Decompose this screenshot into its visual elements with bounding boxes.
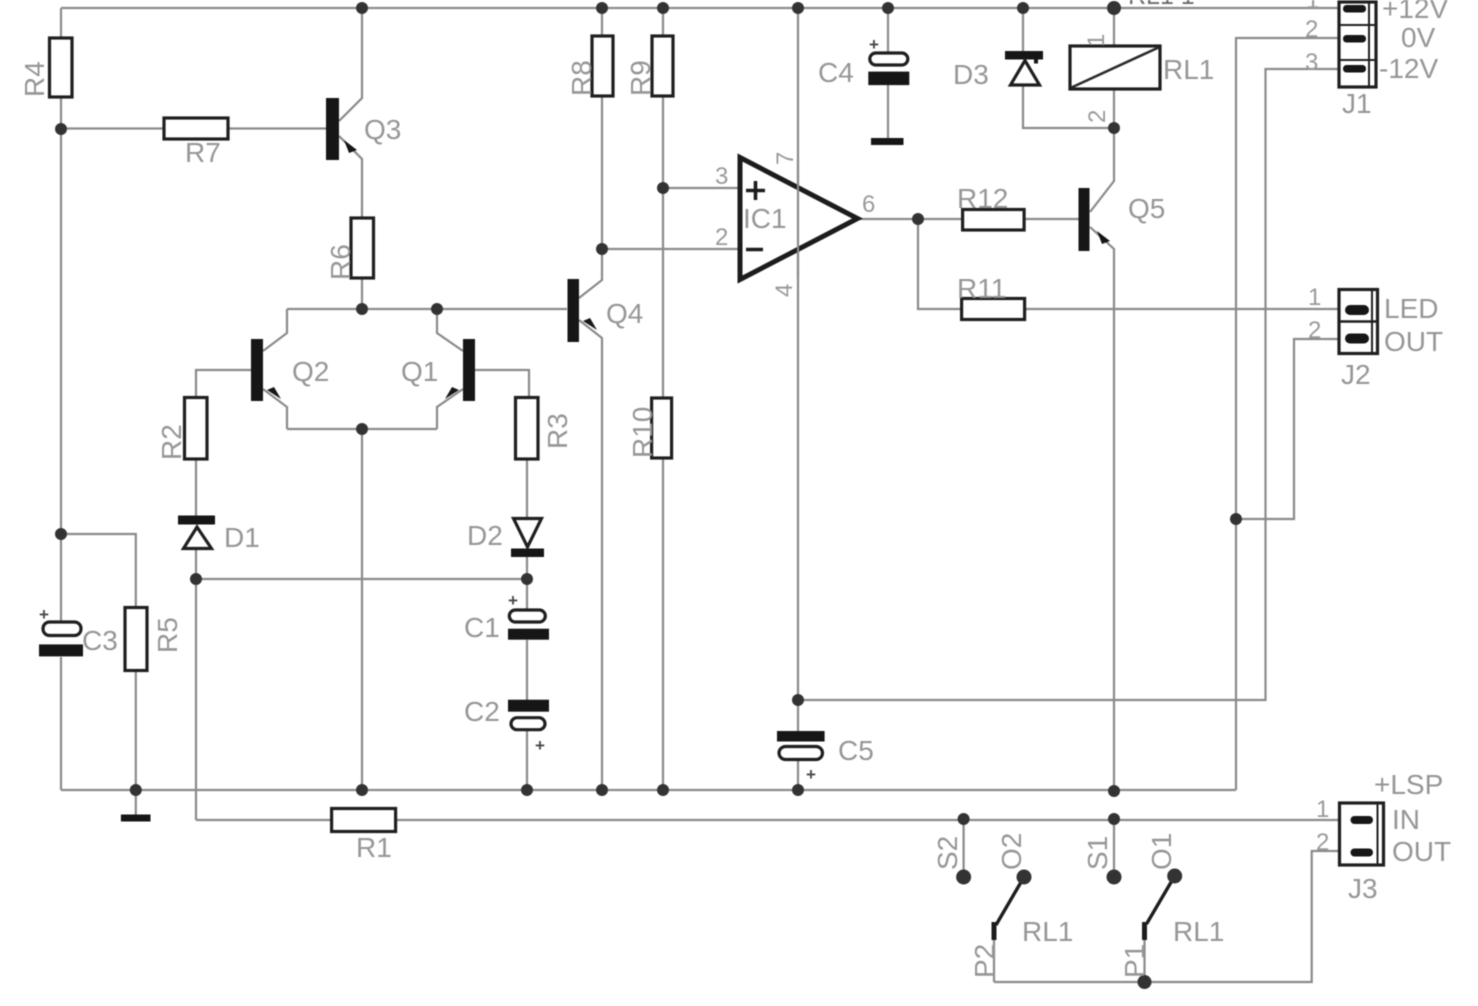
- wire: relay node to Q5 collector: [1090, 128, 1114, 212]
- diode D2: [511, 519, 544, 558]
- svg-text:J2: J2: [1341, 359, 1371, 390]
- junction emitter rail tail: [356, 423, 368, 435]
- capacitor C5: [777, 731, 825, 784]
- wire: R1 to J3 pin1 speaker line: [396, 819, 1352, 821]
- wire: Q4 collector riser: [579, 249, 602, 298]
- svg-text:R12: R12: [957, 183, 1008, 214]
- resistor R3: [516, 398, 539, 460]
- wire: R6 to base rail: [361, 278, 363, 309]
- wire: D3 top lead: [1022, 8, 1024, 51]
- svg-text:R8: R8: [566, 60, 597, 96]
- svg-text:R11: R11: [957, 273, 1006, 304]
- junction base rail at Q1 emitter: [431, 303, 443, 315]
- capacitor C2: [508, 700, 549, 755]
- junction 0V rail at Q5 emitter: [1108, 785, 1120, 797]
- svg-text:C1: C1: [464, 612, 500, 643]
- junction 0V rail at R5: [130, 784, 142, 796]
- svg-text:C4: C4: [818, 57, 854, 88]
- junction D1 node: [190, 573, 202, 585]
- wire: S2 hanger: [962, 819, 964, 877]
- svg-text:D2: D2: [467, 520, 503, 551]
- svg-text:2: 2: [715, 224, 728, 251]
- junction speaker line at S1: [1108, 813, 1120, 825]
- svg-text:7: 7: [772, 152, 799, 165]
- wire: R9 column top: [662, 8, 664, 36]
- wire: R12 to Q5 base: [1024, 218, 1078, 220]
- svg-text:+: +: [869, 35, 879, 54]
- wire: C5 top lead: [797, 700, 799, 731]
- svg-text:2: 2: [1308, 317, 1321, 344]
- svg-text:O2: O2: [996, 833, 1027, 870]
- svg-text:Q3: Q3: [364, 114, 401, 145]
- wire: IC1 pin2 row: [602, 248, 741, 250]
- svg-text:IC1: IC1: [743, 203, 787, 234]
- connector J2: [1339, 290, 1378, 354]
- svg-text:2: 2: [1316, 829, 1329, 856]
- wire: -12V from J1 pin3 to C5 node: [798, 69, 1339, 700]
- svg-text:RL1: RL1: [1173, 916, 1224, 947]
- svg-text:1: 1: [1083, 34, 1110, 47]
- wire: C1 to C2: [526, 640, 528, 700]
- svg-text:R3: R3: [542, 413, 573, 449]
- wire: output node down to R11: [918, 219, 962, 309]
- C4 0V terminal bar: [871, 138, 904, 145]
- wire: C2 to 0V rail: [526, 730, 528, 790]
- wire: R1 left lead: [196, 819, 332, 821]
- svg-text:LED: LED: [1384, 293, 1438, 324]
- wire: emitter rail y429: [287, 428, 437, 430]
- svg-text:O1: O1: [1146, 833, 1177, 870]
- svg-text:R9: R9: [625, 60, 656, 96]
- junction node left column / R5: [55, 528, 67, 540]
- junction 0V rail at tail: [356, 784, 368, 796]
- wire: left column R4 bottom to C3: [60, 97, 62, 622]
- op-amp IC1: [740, 158, 858, 280]
- wire: Q3 emitter to R6: [339, 136, 362, 218]
- transistor Q5: [1079, 188, 1111, 251]
- junction on +12V rail at RL1: [1107, 1, 1121, 15]
- svg-text:OUT: OUT: [1392, 836, 1451, 867]
- svg-text:R1: R1: [356, 832, 392, 863]
- svg-text:+: +: [39, 605, 49, 624]
- relay contact switch S2/O2/P2: [994, 877, 1024, 940]
- wire: Q1 collector drop: [437, 389, 463, 429]
- relay contact switch S1/O1/P1: [1145, 876, 1175, 940]
- contact O2: [1017, 870, 1032, 885]
- svg-text:R6: R6: [325, 244, 356, 280]
- svg-text:P1: P1: [1119, 944, 1150, 978]
- junction IC1 pin2 node: [596, 243, 608, 255]
- wire: R8 to pin2 node: [601, 96, 603, 249]
- junction D2 node: [521, 573, 533, 585]
- wire: C4 top lead: [887, 8, 889, 53]
- svg-text:C3: C3: [82, 625, 118, 656]
- resistor R4: [50, 38, 73, 97]
- svg-text:Q4: Q4: [606, 298, 643, 329]
- svg-text:R2: R2: [156, 424, 187, 460]
- junction on +12V rail at D3: [1017, 2, 1029, 14]
- svg-text:3: 3: [715, 163, 728, 190]
- wire: D1 to node row y579: [195, 548, 197, 579]
- transistor Q2: [251, 339, 281, 401]
- svg-text:1: 1: [1306, 0, 1319, 14]
- svg-text:OUT: OUT: [1384, 326, 1443, 357]
- wire: R11 to J2 pin1: [1025, 308, 1345, 310]
- contact S2: [956, 870, 971, 885]
- svg-text:C5: C5: [838, 735, 874, 766]
- resistor R10: [652, 398, 672, 458]
- svg-text:+: +: [806, 765, 816, 784]
- svg-text:Q2: Q2: [292, 356, 329, 387]
- connector J1: [1339, 2, 1376, 87]
- resistor R7: [164, 118, 228, 139]
- wire: supply column over IC1: [797, 160, 799, 278]
- wire: R3 to D2: [526, 459, 528, 518]
- wire: D2 to node row: [526, 557, 528, 610]
- svg-text:D3: D3: [953, 59, 989, 90]
- wire: Q2 emitter drop: [263, 389, 287, 429]
- svg-text:R7: R7: [185, 137, 221, 168]
- svg-text:IN: IN: [1392, 804, 1420, 835]
- wire: J2 pin2 to 0V riser: [1236, 339, 1345, 519]
- wire: IC1 pin3 row: [663, 187, 741, 189]
- wire: R8 column top: [601, 8, 603, 36]
- contact O1: [1167, 869, 1182, 884]
- svg-text:D1: D1: [224, 522, 260, 553]
- wire: R7 base row: [61, 127, 326, 129]
- svg-text:R5: R5: [152, 617, 183, 653]
- junction base rail at R6: [356, 303, 368, 315]
- svg-text:1: 1: [1316, 796, 1329, 823]
- svg-text:-12V: -12V: [1379, 53, 1438, 84]
- svg-text:6: 6: [862, 191, 875, 218]
- junction 0V rail at C5: [792, 784, 804, 796]
- junction node R4/R7: [55, 123, 67, 135]
- junction speaker line at S2: [958, 813, 970, 825]
- wire: R2 to D1: [195, 459, 197, 516]
- wire: Q2 collector riser: [263, 309, 287, 351]
- wire: 0V bottom rail: [61, 789, 1236, 791]
- svg-text:+LSP: +LSP: [1374, 769, 1443, 800]
- svg-text:+: +: [535, 736, 545, 755]
- wire: C3 bottom to 0V rail: [60, 657, 62, 790]
- svg-text:Q1: Q1: [401, 356, 438, 387]
- svg-text:Q5: Q5: [1128, 193, 1165, 224]
- svg-text:R4: R4: [19, 61, 50, 97]
- junction relay coil / D3 / Q5 collector: [1108, 122, 1120, 134]
- wire: +12V top rail: [61, 7, 1339, 9]
- svg-text:S1: S1: [1082, 836, 1113, 870]
- wire: IC1 supply column x798: [797, 8, 799, 700]
- svg-text:2: 2: [1305, 16, 1318, 43]
- wire: D3 bottom to relay node: [1023, 85, 1114, 128]
- junction C5 / -12V node: [792, 694, 804, 706]
- svg-text:RL1 1: RL1 1: [1128, 0, 1195, 10]
- svg-text:1: 1: [1308, 284, 1321, 311]
- wire: P2 drop: [993, 938, 995, 982]
- svg-text:C2: C2: [464, 696, 500, 727]
- wire: relay coil bottom lead: [1113, 89, 1115, 128]
- wire: D1 column down to R1 row: [195, 579, 197, 820]
- wire: S1 hanger: [1113, 819, 1115, 877]
- wire: R5 bottom to rail: [135, 671, 137, 791]
- junction IC1 pin3 node: [657, 182, 669, 194]
- wire: C5 bottom lead: [797, 760, 799, 790]
- capacitor C4: [868, 35, 909, 85]
- junction 0V rail at Q4: [596, 784, 608, 796]
- junction on +12V rail at C4: [882, 2, 894, 14]
- wire: node to R5 top: [61, 534, 136, 608]
- junction 0V riser / J2 pin2: [1230, 513, 1242, 525]
- junction 0V rail at R10: [657, 784, 669, 796]
- wire: Q2 base to R2: [196, 370, 251, 398]
- svg-text:4: 4: [771, 284, 798, 297]
- wire: IC1 output to R12: [857, 218, 963, 220]
- zener diode D3: [1005, 51, 1043, 85]
- svg-text:S2: S2: [932, 836, 963, 870]
- svg-text:0V: 0V: [1401, 22, 1436, 53]
- wire: left column R4 top: [60, 8, 62, 38]
- wire: R10 to 0V rail: [662, 458, 664, 790]
- resistor R8: [592, 36, 613, 96]
- resistor R9: [652, 36, 673, 96]
- wire: Q5 emitter to 0V rail: [1090, 227, 1114, 791]
- wire: relay coil top lead: [1113, 8, 1115, 46]
- resistor R6: [351, 218, 374, 278]
- resistor R1: [332, 809, 396, 832]
- junction on +12V rail at Q3: [356, 2, 368, 14]
- svg-text:RL1: RL1: [1163, 54, 1214, 85]
- svg-text:+: +: [508, 591, 518, 610]
- wire: P1 drop: [1143, 938, 1145, 982]
- wire: Q1 base to R3: [475, 370, 529, 398]
- capacitor C3: [39, 605, 83, 656]
- wire: tail drop x362: [361, 429, 363, 790]
- relay coil RL1: [1070, 46, 1160, 89]
- wire: R9 to pin3 node: [662, 96, 664, 188]
- wire: 0V riser to J1 pin 2: [1236, 38, 1339, 790]
- resistor R5: [125, 608, 147, 671]
- junction on +12V rail at R9: [657, 2, 669, 14]
- resistor R11: [962, 299, 1025, 320]
- svg-text:3: 3: [1305, 49, 1318, 76]
- wire: node row y579: [196, 578, 527, 580]
- wire: Q1 emitter riser: [437, 309, 463, 351]
- junction P1 / common line: [1138, 975, 1152, 989]
- diode D1: [178, 516, 215, 549]
- svg-text:RL1: RL1: [1022, 916, 1073, 947]
- ground symbol: [121, 815, 151, 822]
- transistor Q1: [445, 339, 475, 401]
- svg-text:2: 2: [1084, 110, 1111, 123]
- junction 0V rail at C2: [521, 784, 533, 796]
- wire: C4 bottom lead: [887, 85, 889, 138]
- transistor Q3: [326, 98, 357, 160]
- wire: ground stub: [135, 790, 137, 815]
- capacitor C1: [508, 591, 549, 640]
- svg-text:R10: R10: [627, 407, 658, 458]
- connector J3: [1340, 803, 1384, 865]
- resistor R2: [185, 398, 208, 460]
- wire: R9 node down to R10: [662, 188, 664, 398]
- wire: relay contacts common line to J3 pin2: [994, 851, 1345, 982]
- transistor Q4: [568, 279, 598, 342]
- resistor R12: [963, 210, 1025, 231]
- svg-text:J3: J3: [1348, 873, 1378, 904]
- wire: Q4 emitter drop: [579, 320, 602, 790]
- wire: Q3 collector to rail: [339, 8, 362, 121]
- wire: base rail Q2/Q1/Q4: [287, 308, 567, 310]
- junction IC1 output node: [912, 213, 924, 225]
- junction on +12V rail at IC1 supply: [792, 2, 804, 14]
- svg-text:J1: J1: [1342, 88, 1372, 119]
- junction on +12V rail at R8: [596, 2, 608, 14]
- contact S1: [1107, 870, 1122, 885]
- svg-text:+12V: +12V: [1382, 0, 1448, 24]
- svg-text:P2: P2: [969, 944, 1000, 978]
